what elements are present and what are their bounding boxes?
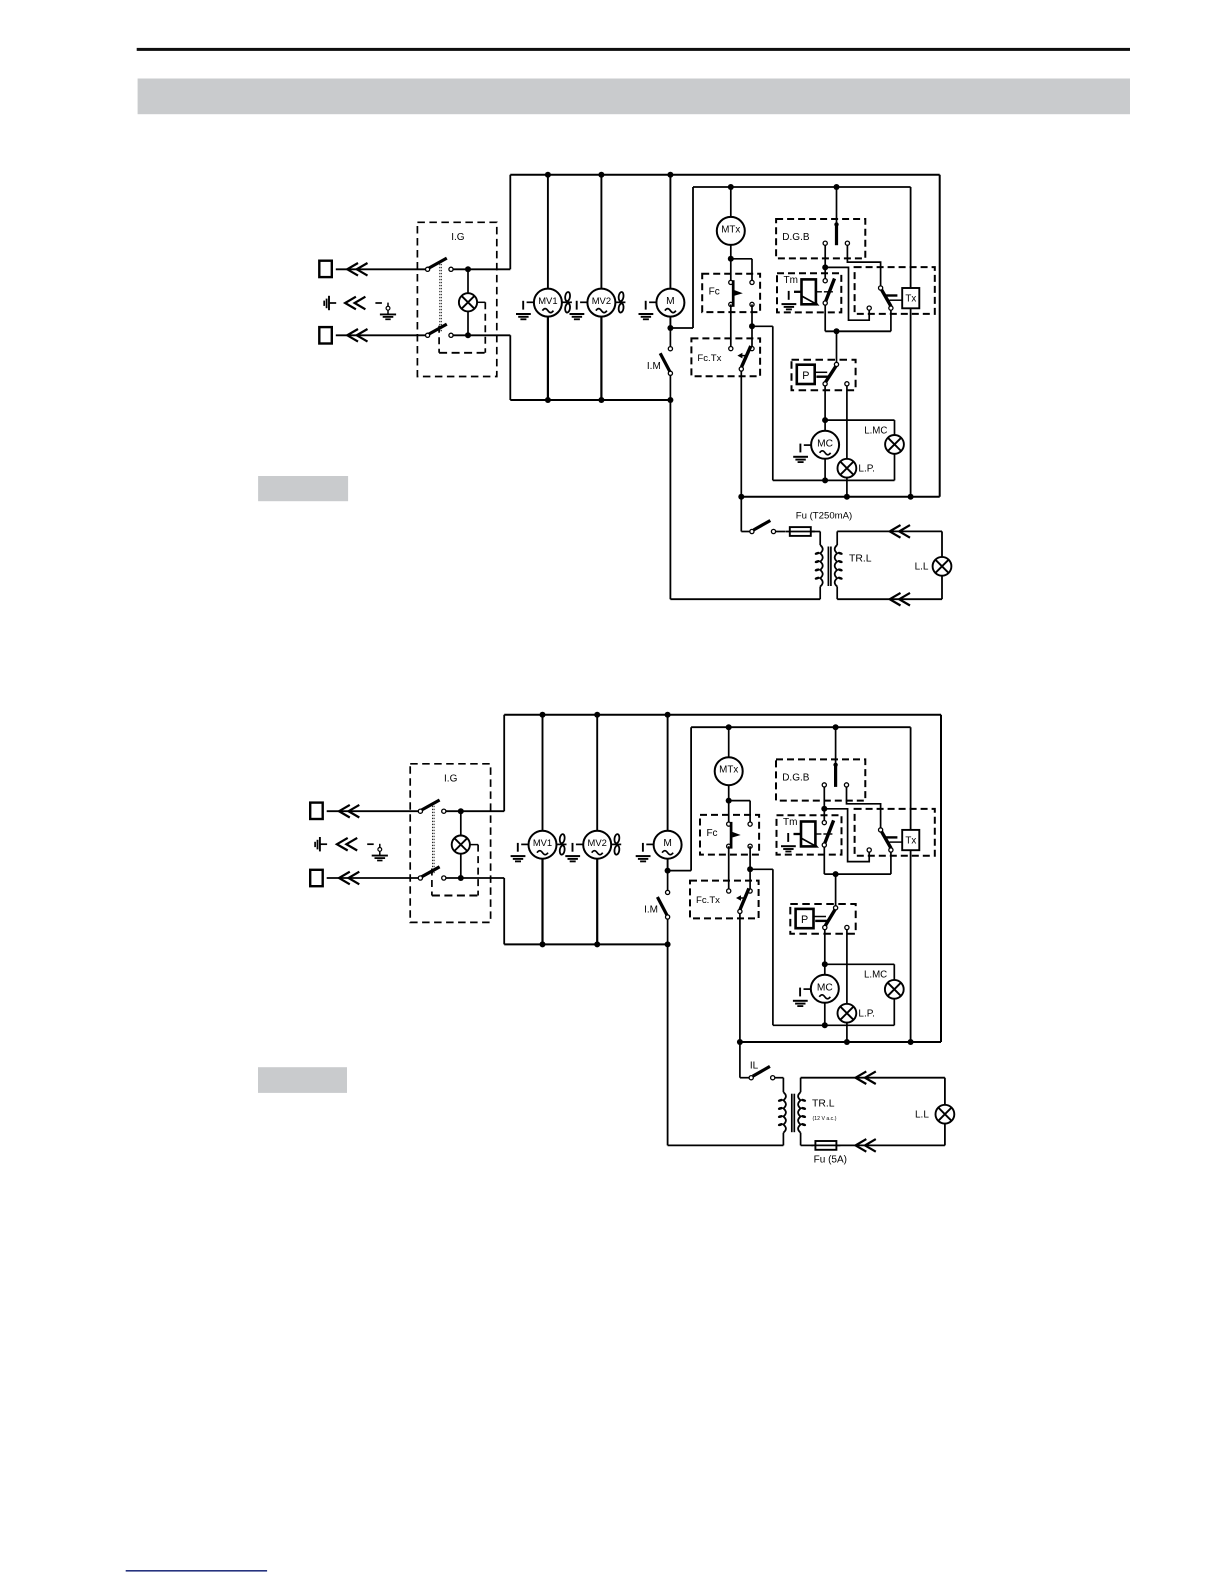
box: D1 I.G lamp compartment bbox=[439, 302, 485, 353]
ground: motor M D1 bbox=[639, 301, 657, 320]
ground: Tm D2 bbox=[781, 833, 796, 852]
svg-text:IL: IL bbox=[750, 1061, 759, 1072]
header title bar bbox=[138, 79, 1130, 115]
selector D.G.B: D2 bbox=[776, 727, 865, 800]
arrows: D2 line L bbox=[339, 805, 359, 818]
terminal: D2 earth pin bbox=[315, 837, 327, 851]
svg-text:I.M: I.M bbox=[647, 361, 661, 372]
wire: D1 Fc outputs bbox=[731, 304, 773, 480]
wire: D1 I.G outputs bbox=[453, 266, 510, 338]
terminal: D2 mains pin N bbox=[310, 870, 323, 886]
svg-text:Fc: Fc bbox=[709, 287, 720, 298]
wire: D1 top supply bus bbox=[510, 175, 939, 497]
wire: D1 D.G.B left contact to Tm bbox=[822, 245, 828, 270]
svg-text:MV2: MV2 bbox=[588, 837, 607, 848]
svg-text:D.G.B: D.G.B bbox=[782, 772, 810, 783]
svg-text:Fu (T250mA): Fu (T250mA) bbox=[796, 510, 853, 521]
terminal: D1 mains pin L bbox=[319, 261, 332, 277]
relay coil Tx: D1 bbox=[902, 288, 919, 308]
arrows: D2 earth bbox=[337, 838, 357, 851]
ground: MC D2 bbox=[793, 988, 811, 1007]
arrows: D1 lamp loop bbox=[890, 525, 910, 605]
wire: D1 Tm bypass to Tx NC contact bbox=[825, 267, 869, 320]
wire: D2 Fc.Tx to lamp feed bbox=[739, 913, 741, 1042]
svg-text:I.G: I.G bbox=[444, 773, 458, 784]
svg-text:I.M: I.M bbox=[644, 905, 658, 916]
wire: D2 D.G.B left contact to Tm bbox=[821, 787, 827, 812]
relay coil Tx: D2 bbox=[902, 830, 919, 850]
caption box: diagram 1 bbox=[258, 476, 348, 501]
svg-text:MTx: MTx bbox=[721, 224, 740, 235]
svg-text:(12 V a.c.): (12 V a.c.) bbox=[813, 1116, 837, 1122]
box: D2 I.G lamp compartment bbox=[432, 845, 478, 896]
switch P: D1 pressure switch bbox=[792, 331, 856, 390]
fan: MV2 D1 bbox=[615, 292, 625, 313]
ground: motor MV1 D1 bbox=[516, 301, 534, 320]
svg-text:L.L: L.L bbox=[915, 562, 929, 573]
wire: D2 I.G outputs bbox=[446, 808, 504, 881]
wire: D1 bottom bus bbox=[510, 399, 670, 401]
wire: D1 D.G.B right contact to Tx switch bbox=[847, 245, 880, 286]
svg-text:M: M bbox=[666, 296, 675, 307]
svg-text:MV1: MV1 bbox=[533, 837, 552, 848]
fan: MV1 D1 bbox=[562, 292, 572, 313]
fuse Fu (T250mA): D1 bbox=[776, 510, 853, 536]
thermostat Tm: D2 bbox=[777, 815, 842, 854]
ground: motor MV1 D2 bbox=[511, 843, 529, 862]
wire: D2 lamp loop top bbox=[801, 1078, 945, 1146]
wire: D2 Tm bypass to Tx NC contact bbox=[824, 809, 869, 862]
node: D2 top bus junctions bbox=[540, 712, 671, 718]
node: D1 MTx output junction bbox=[728, 256, 752, 283]
contact block Fc: D2 bbox=[700, 815, 759, 855]
node: D2 feeder junctions bbox=[665, 724, 839, 873]
terminal: D1 mains pin N bbox=[319, 327, 332, 343]
footer rule bbox=[126, 1570, 267, 1572]
switch Tx: D2 changeover bbox=[855, 809, 935, 856]
thermostat Tm: D1 bbox=[777, 273, 841, 312]
motor MV1: D2 bbox=[529, 715, 557, 945]
lamp L.MC: D2 bbox=[864, 970, 904, 1026]
lamp: D1 I.G pilot lamp bbox=[459, 269, 485, 335]
transformer TR.L: D1 bbox=[814, 531, 871, 599]
svg-text:L.L: L.L bbox=[915, 1110, 929, 1121]
switch I.G: D2 main double-pole switch bbox=[410, 764, 490, 923]
svg-text:Tx: Tx bbox=[905, 294, 916, 305]
ground: motor MV2 D2 bbox=[565, 843, 583, 862]
wire: D2 earth dashed link bbox=[367, 843, 374, 845]
terminal: D2 mains pin L bbox=[310, 803, 323, 819]
svg-text:L.P.: L.P. bbox=[858, 464, 875, 475]
svg-text:D.G.B: D.G.B bbox=[782, 232, 810, 243]
svg-text:Tm: Tm bbox=[784, 275, 798, 286]
lamp: D2 I.G pilot lamp bbox=[452, 811, 478, 878]
svg-text:MV2: MV2 bbox=[592, 295, 611, 306]
selector D.G.B: D1 bbox=[776, 187, 865, 258]
svg-text:Fu (5A): Fu (5A) bbox=[814, 1154, 847, 1165]
wire: D1 line L lead bbox=[336, 268, 428, 270]
svg-text:P: P bbox=[802, 370, 809, 382]
arrows: D2 lamp loop bbox=[856, 1071, 876, 1151]
node: D1 top bus junctions bbox=[545, 172, 674, 178]
svg-text:Tm: Tm bbox=[783, 817, 797, 828]
motor MV1: D1 bbox=[534, 175, 562, 400]
motor M: D1 bbox=[656, 175, 684, 328]
caption box: diagram 2 bbox=[258, 1067, 347, 1093]
lamp L.L: D1 bbox=[915, 557, 952, 576]
node: D1 feeder junctions bbox=[667, 184, 839, 331]
switch Tm contact: D1 bbox=[823, 267, 834, 331]
header rule bbox=[137, 48, 1130, 51]
ground: motor M D2 bbox=[636, 843, 654, 862]
fan: MV1 D2 bbox=[557, 834, 567, 855]
svg-text:Fc.Tx: Fc.Tx bbox=[697, 353, 721, 364]
wire: D1 Tm output row bbox=[825, 310, 891, 334]
motor MV2: D2 bbox=[583, 715, 611, 945]
motor MC: D1 compressor bbox=[811, 420, 839, 480]
terminal: D1 earth pin bbox=[324, 296, 336, 310]
wire: D2 D.G.B right contact to Tx switch bbox=[847, 787, 881, 828]
arrows: D1 line N bbox=[347, 329, 367, 342]
fuse Fu (5A): D2 bbox=[801, 1141, 945, 1165]
motor MTx: D2 bbox=[715, 727, 743, 800]
switch I.M: D2 bbox=[644, 871, 670, 945]
switch I.G: D1 main double-pole switch bbox=[417, 222, 496, 376]
wire: D2 Tm output row bbox=[824, 852, 891, 877]
wire: D2 P output to MC bbox=[822, 930, 895, 980]
arrows: D2 line N bbox=[339, 872, 359, 885]
switch Tx: D1 changeover bbox=[855, 267, 935, 314]
motor M: D2 bbox=[654, 715, 682, 871]
svg-text:TR.L: TR.L bbox=[812, 1098, 835, 1109]
wire: D2 bottom bus bbox=[504, 943, 667, 945]
lamp L.MC: D1 bbox=[864, 425, 904, 480]
wire: D2 Fc outputs bbox=[729, 846, 773, 1025]
wire: D2 lamp circuit bus bbox=[737, 1039, 941, 1045]
transformer TR.L (12 V a.c.): D2 bbox=[775, 1078, 837, 1146]
ground: motor MV2 D1 bbox=[570, 301, 588, 320]
ground: Tm D1 bbox=[782, 291, 797, 310]
wire: D2 line N lead bbox=[327, 877, 421, 879]
switch IL: D2 lamp switch bbox=[740, 1042, 775, 1080]
fan: MV2 D2 bbox=[611, 834, 621, 855]
switch P: D2 pressure switch bbox=[790, 874, 855, 934]
arrows: D1 line L bbox=[347, 263, 367, 276]
ground: D2 earth electrode bbox=[372, 844, 388, 861]
switch Fc.Tx: D1 bbox=[691, 338, 760, 376]
svg-text:MV1: MV1 bbox=[538, 295, 557, 306]
svg-text:MC: MC bbox=[817, 438, 833, 449]
wire: D1 earth dashed link bbox=[375, 302, 382, 304]
node: D1 bottom bus junctions bbox=[545, 397, 674, 403]
svg-text:M: M bbox=[663, 838, 672, 849]
node: D2 MTx output junction bbox=[726, 798, 750, 825]
svg-text:MC: MC bbox=[817, 982, 833, 993]
svg-text:L.P.: L.P. bbox=[858, 1009, 875, 1020]
switch Fc.Tx: D2 bbox=[690, 881, 759, 919]
svg-text:P: P bbox=[801, 914, 808, 926]
motor MC: D2 compressor bbox=[811, 964, 839, 1025]
motor MV2: D1 bbox=[587, 175, 615, 400]
svg-text:I.G: I.G bbox=[451, 232, 465, 243]
wire: D2 lamp transformer return line bbox=[668, 944, 784, 1145]
svg-text:L.MC: L.MC bbox=[864, 425, 887, 436]
svg-text:Fc.Tx: Fc.Tx bbox=[696, 895, 720, 906]
wire: D2 MC bottom rail bbox=[773, 1022, 894, 1028]
wire: D1 Fc.Tx to lamp feed bbox=[740, 371, 742, 497]
contact block Fc: D1 bbox=[702, 274, 760, 312]
wire: D2 inner feeder line bbox=[668, 727, 911, 1042]
lamp L.P: D1 bbox=[838, 386, 875, 497]
wire: D1 lamp circuit bus bbox=[738, 494, 939, 500]
wire: D1 lamp transformer return line bbox=[670, 400, 820, 599]
wire: D1 lamp loop bbox=[837, 531, 942, 599]
wire: D1 P output to MC bbox=[822, 386, 894, 435]
wire: D2 top supply bus bbox=[504, 715, 941, 1042]
motor MTx: D1 bbox=[717, 187, 745, 259]
wire: D1 line N lead bbox=[336, 334, 428, 336]
wire: D2 line L lead bbox=[327, 810, 421, 812]
svg-text:MTx: MTx bbox=[719, 765, 738, 776]
svg-text:Tx: Tx bbox=[905, 836, 916, 847]
wire: D1 inner feeder line bbox=[670, 187, 910, 497]
svg-text:TR.L: TR.L bbox=[849, 553, 872, 564]
ground: MC D1 bbox=[793, 444, 811, 463]
lamp L.P: D2 bbox=[838, 930, 875, 1043]
switch I.M: D1 bbox=[647, 328, 673, 400]
svg-text:L.MC: L.MC bbox=[864, 970, 887, 981]
switch: D1 lamp switch bbox=[741, 497, 775, 534]
ground: D1 earth electrode bbox=[380, 303, 396, 320]
node: D2 bottom bus junctions bbox=[540, 941, 671, 947]
svg-text:Fc: Fc bbox=[706, 828, 717, 839]
wire: D1 MC bottom rail bbox=[773, 477, 895, 483]
lamp L.L: D2 bbox=[915, 1105, 954, 1124]
switch Tm contact: D2 bbox=[822, 809, 833, 874]
arrows: D1 earth bbox=[345, 297, 365, 310]
